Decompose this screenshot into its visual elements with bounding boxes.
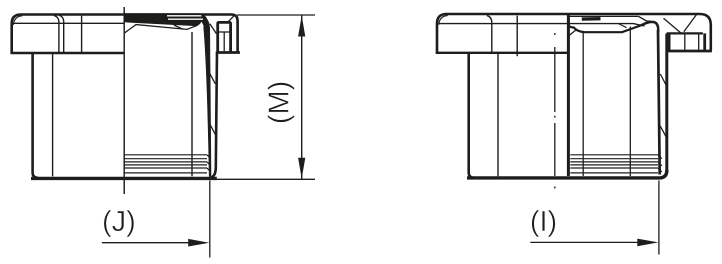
right view tab top edge [667,32,703,34]
left view inner ceiling line [125,25,198,33]
left view tab top diagonal [228,16,234,22]
right view cut tick [569,30,576,36]
right view inner line A [569,16,651,21]
right view tab inner vertical 1 [684,35,686,50]
svg-text:(M): (M) [264,81,296,124]
right view tab right thick vertical [703,33,706,50]
right view flange vertical 2 [516,16,518,57]
left view white stripe 2 in black band [168,18,203,20]
dim J arrow [188,239,209,247]
dim M top extension line [237,14,315,16]
left view rib 5 [124,167,207,169]
left view ceiling tick [174,25,183,29]
right view flange vertical 1 [487,15,492,52]
left view flange bottom line left half [11,52,125,55]
left view tab inner vertical [223,32,225,51]
right view inner ceiling line C [569,24,642,32]
dim I extension line [658,181,660,255]
dim I line [530,241,638,243]
right view rib 5 [570,167,658,169]
right view rib hook 2 [658,162,662,166]
left view rib 6 [124,172,207,174]
left view rib 2 [124,158,207,160]
left view centerline [123,7,125,194]
left view flange vertical 3 [81,16,83,52]
right view chamfer diagonal 1 [664,18,682,33]
dim M bottom extension line [216,178,316,180]
right view S-curve outer wall top [641,22,658,32]
right view dash-dot centerline [554,33,556,189]
left view rib hook 1 [207,155,211,159]
dim M arrow up [298,16,305,37]
right view bottom thick line [467,170,667,178]
left view rib 3 [124,161,207,163]
right view rib 6 [570,172,658,174]
right view flange outline [437,14,711,54]
dim J extension line [209,181,211,258]
right view body inner left line [497,54,499,177]
dim M line [301,15,303,179]
dim I arrow [637,239,658,247]
right view body left outer edge [469,54,475,178]
svg-text:(J): (J) [102,206,136,238]
left view body left outer edge [33,54,39,178]
dim J line [102,242,190,244]
left view wall tick 1 [210,74,216,84]
right view rib 4 [570,164,658,166]
right view bore line 2 [629,27,631,177]
left view white stripe 1 in black band [167,15,201,17]
svg-text:(I): (I) [530,206,557,238]
right view outer wall taper [661,34,667,178]
left view rib hook 3 [207,168,211,172]
right view rib hook 3 [658,168,662,172]
left view bore line [191,32,193,176]
right view rib 2 [570,158,658,160]
right view wall tick 1 [660,74,666,86]
right view tab left edge [668,33,671,50]
left view flange inner top line [14,22,125,24]
right view flange bottom line [436,52,568,54]
left view sectioned top wall black fill [124,13,209,29]
right view wall tick 2 [660,125,666,136]
left view wall chamfer tick top [210,24,217,34]
right view rib 1 [570,154,658,156]
right view chamfer diagonal 2 [684,15,697,32]
left view flange vertical 1 [54,15,59,52]
right view tab bottom edge [667,50,712,53]
left view tab inner horizontal [219,31,229,33]
left view flange vertical 2 [59,15,64,52]
right view rib 3 [570,161,658,163]
right view section cut wall [567,15,570,176]
left view rib hook 2 [207,162,211,166]
left view outer wall line [211,52,217,178]
left view flange outline [12,15,238,54]
left view body inner left line [52,54,54,177]
right view inner line B2 jog [619,24,627,28]
left view rib 4 [124,164,207,166]
right view bore line 1 [582,33,584,177]
right view tab inner vertical 2 [698,35,700,50]
left view rib 1 [124,154,207,156]
right view flange corner inner arc [439,16,448,25]
left view pull tab outline [218,22,231,51]
left view section wall tapered solid [204,27,211,176]
right view black bar segment [582,17,601,21]
right view rib hook 1 [658,155,662,159]
dim M arrow down [298,158,305,179]
right view inner wall line [658,30,660,175]
left view flange corner inner arc [13,16,22,25]
left view step bottom line [216,51,240,54]
left view bottom thick line [31,177,217,180]
right view inner top line B [439,24,645,26]
left view wall tick 2 [210,124,216,135]
